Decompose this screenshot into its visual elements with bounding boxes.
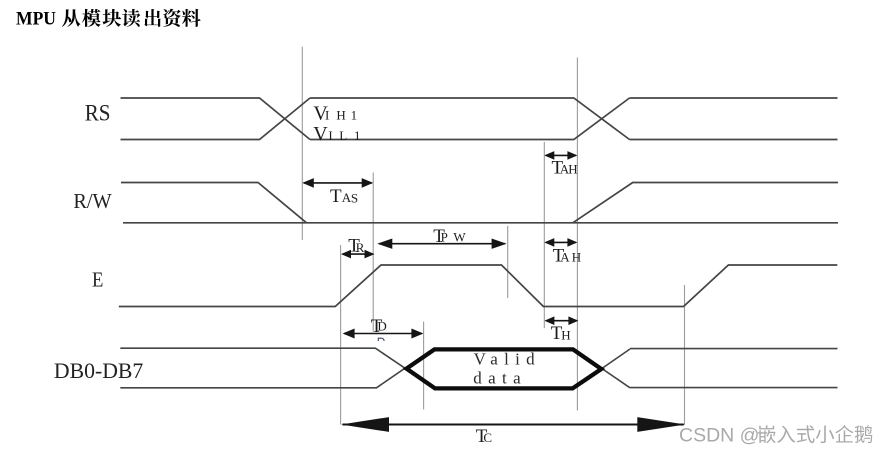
DB0-DB7 right low segment: [630, 387, 838, 389]
svg-text:Valid: Valid: [474, 350, 535, 369]
RS right high segment: [630, 97, 838, 99]
label TD: [371, 316, 387, 337]
watermark char 企: [835, 425, 853, 443]
RS low segment with rising crossover: [121, 98, 311, 140]
svg-text:E: E: [92, 268, 103, 292]
R/W high segment with falling edge: [121, 183, 307, 223]
RS right low segment: [630, 139, 838, 141]
svg-text:DB0-DB7: DB0-DB7: [54, 358, 143, 383]
title char 出: [144, 9, 161, 27]
title char 块: [103, 9, 122, 27]
svg-text:RS: RS: [85, 100, 111, 125]
R/W low segment: [123, 222, 838, 224]
svg-text:1: 1: [351, 107, 358, 122]
title char 从: [62, 9, 80, 27]
DB0-DB7 right crossover falling diagonal: [573, 349, 630, 388]
label VIH1: [313, 103, 357, 125]
watermark char 入: [777, 426, 795, 443]
reference line L2 (E rise start boundary): [340, 245, 342, 425]
RS mid high segment with falling crossover: [310, 98, 630, 140]
reference line L7 (cycle end boundary): [684, 285, 686, 424]
svg-text:A: A: [560, 249, 570, 264]
DB0-DB7 right crossover rising diagonal: [574, 349, 630, 388]
DB0-DB7 high segment with falling crossover: [120, 348, 434, 388]
dimension arrow TH: [544, 316, 578, 325]
reference line L6 (address hold boundary): [576, 58, 578, 411]
svg-text:CSDN @: CSDN @: [679, 425, 759, 447]
svg-text:V: V: [313, 123, 328, 145]
label TAH lower: [553, 245, 582, 266]
svg-text:W: W: [453, 229, 466, 244]
svg-text:D: D: [377, 319, 386, 334]
title char 读: [122, 9, 140, 27]
reference line L4 (E fall start boundary): [507, 226, 509, 298]
watermark char 小: [816, 426, 834, 444]
title char 模: [82, 9, 101, 27]
label TPW: [433, 226, 466, 247]
svg-text:MPU: MPU: [16, 9, 56, 30]
label VIL1: [313, 123, 360, 145]
label TAS: [330, 186, 358, 207]
title char 资: [163, 9, 181, 27]
DB0-DB7 right high segment: [630, 348, 838, 350]
label TAH upper: [552, 157, 578, 178]
RS mid low segment with rising crossover: [310, 98, 630, 140]
svg-text:C: C: [483, 430, 492, 445]
svg-text:H: H: [336, 107, 345, 122]
watermark char 嵌: [758, 425, 776, 443]
reference line L5 (E fall bottom boundary): [543, 142, 545, 328]
svg-text:1: 1: [354, 128, 361, 143]
title char 料: [182, 9, 201, 27]
reference line L1 (RS setup boundary): [301, 47, 303, 240]
svg-text:I: I: [328, 128, 332, 143]
dimension arrow TD: [343, 329, 424, 339]
reference line LE (data valid start boundary): [423, 322, 425, 410]
reference line L3 (E rise top boundary): [372, 173, 374, 332]
dimension arrow TR: [341, 250, 375, 259]
label TC: [476, 426, 492, 447]
dimension arrow TAS: [302, 178, 373, 188]
svg-text:P: P: [441, 229, 448, 244]
svg-text:I: I: [325, 107, 329, 122]
label TH: [551, 323, 571, 344]
watermark char 式: [797, 425, 815, 443]
RS high segment with falling crossover: [121, 98, 311, 140]
watermark char 鹅: [855, 425, 873, 443]
label TR: [348, 236, 365, 257]
dimension arrow TPW: [377, 239, 506, 249]
svg-text:S: S: [351, 191, 358, 206]
label fragment below TD (clipped subscript): [378, 338, 384, 341]
dimension arrow TC: [341, 417, 685, 432]
valid-data hexagon (thick bus outline): [407, 349, 602, 388]
svg-text:R/W: R/W: [73, 189, 111, 213]
svg-text:H: H: [572, 249, 581, 264]
svg-text:H: H: [568, 162, 577, 177]
R/W rising edge and right high segment: [573, 183, 838, 223]
dimension arrow TAH lower: [544, 238, 577, 247]
svg-text:R: R: [356, 240, 365, 255]
signal E waveform: [119, 265, 838, 307]
dimension arrow TAH upper: [544, 151, 577, 160]
svg-text:T: T: [330, 186, 342, 207]
svg-text:H: H: [561, 327, 570, 342]
DB0-DB7 low segment with rising crossover: [120, 348, 434, 388]
svg-text:L: L: [339, 128, 347, 143]
